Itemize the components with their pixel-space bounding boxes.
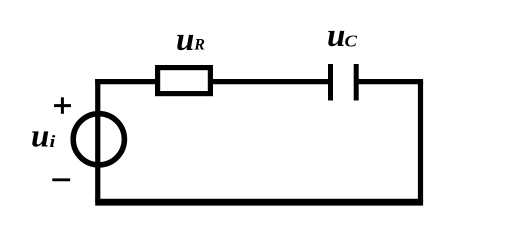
resistor R bbox=[158, 68, 211, 94]
svg-text:C: C bbox=[345, 31, 358, 50]
svg-text:u: u bbox=[327, 18, 345, 54]
svg-text:u: u bbox=[31, 119, 49, 155]
label ui bbox=[31, 119, 56, 155]
voltage source U1 (circle) bbox=[73, 114, 124, 165]
wire: top-left segment (source to resistor) bbox=[95, 79, 160, 84]
polarity minus sign bbox=[52, 178, 70, 181]
svg-text:u: u bbox=[176, 22, 194, 58]
svg-text:i: i bbox=[50, 132, 56, 151]
capacitor C bbox=[331, 64, 357, 101]
wire: capacitor to top-right corner bbox=[356, 79, 423, 84]
wire: bottom horizontal bbox=[95, 199, 423, 206]
polarity plus sign bbox=[54, 97, 71, 114]
wire: resistor to capacitor segment bbox=[210, 79, 331, 84]
svg-text:R: R bbox=[193, 37, 205, 54]
wire: right vertical bbox=[418, 82, 423, 203]
label uR bbox=[176, 22, 205, 58]
label uC bbox=[327, 18, 358, 54]
wire: left vertical (through source) bbox=[95, 79, 100, 202]
